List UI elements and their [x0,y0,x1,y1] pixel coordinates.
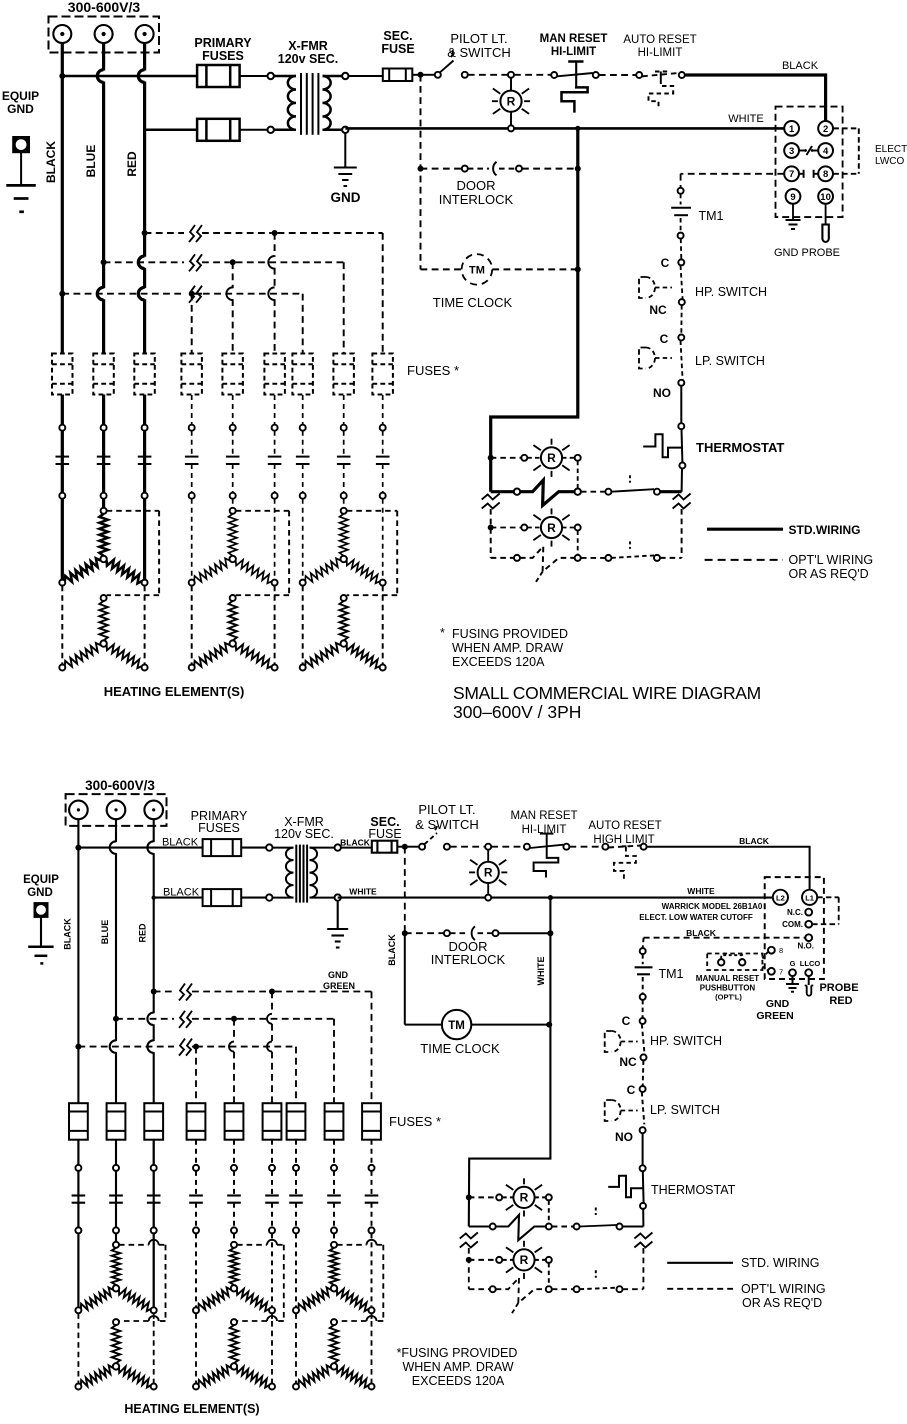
heating element group 2 (wye) [189,499,289,671]
svg-text:*FUSING PROVIDED: *FUSING PROVIDED [397,1346,518,1360]
label SEC. FUSE [381,29,414,56]
node C LP (bottom) [640,1086,646,1092]
wire man reset to auto reset [599,74,636,76]
node row1 to col6 (bottom) [269,989,275,995]
svg-text:ELECT. LOW WATER CUTOFF: ELECT. LOW WATER CUTOFF [639,913,753,922]
label RED vertical (bottom) [138,923,148,943]
node C HP (bottom) [640,1018,646,1024]
heater fuse F8 (bottom) [325,1103,344,1140]
wire RED phase column [138,43,144,583]
label BLACK vertical (bottom) [63,918,73,950]
svg-text:EXCEEDS 120A: EXCEEDS 120A [412,1374,505,1388]
LWCO terminal 7 [784,166,799,181]
svg-text:4: 4 [823,146,829,157]
svg-text:GREEN: GREEN [323,981,355,991]
label WHITE (transformer side) [349,887,377,897]
LWCO terminal 8 [818,166,833,181]
wire col4 drop (bottom) [195,1047,197,1104]
svg-text:TIME CLOCK: TIME CLOCK [433,295,513,310]
label DOOR INTERLOCK [439,178,514,207]
contactor contact column 4 [185,395,199,499]
svg-text:NO: NO [615,1130,633,1144]
break symbol left column (bottom) [460,1233,478,1248]
svg-text:BLACK: BLACK [63,918,73,950]
node thermostat bottom [679,463,685,469]
ground below terminal 9 [786,220,801,229]
svg-text:SEC.: SEC. [383,29,412,43]
svg-text:BLACK: BLACK [340,838,371,848]
ELECT LWCO dashed enclosure [776,107,843,218]
wire pilot light to man reset [514,74,551,76]
svg-text:STD. WIRING: STD. WIRING [741,1256,819,1270]
svg-text:THERMOSTAT: THERMOSTAT [696,440,784,455]
wire sec fuse to node (bottom) [397,844,408,850]
label SEC. FUSE (bottom) [368,815,401,841]
wire G to ground [792,976,794,983]
wire dashed BLACK drop [404,847,406,934]
svg-text:C: C [627,1083,636,1097]
svg-text:7: 7 [789,169,794,180]
node branch row3 at BLACK (bottom) [75,1044,81,1050]
label EQUIP GND (bottom) [23,874,59,899]
primary fuse F2 (bottom) [203,889,242,906]
label BLUE (vertical) [84,145,98,178]
legend STD. WIRING (bottom) [667,1256,819,1270]
wire RED to primary fuse 2 (bottom) [152,895,203,899]
heating element group 2 (bottom) [193,1233,284,1389]
node door interlock right (bottom) [547,930,553,936]
label LP. SWITCH [695,354,765,368]
svg-text:WARRICK MODEL 26B1A0: WARRICK MODEL 26B1A0 [662,902,763,911]
svg-text:2: 2 [823,124,828,135]
wire col5 drop [226,262,232,353]
LWCO terminal 1 [784,121,799,136]
svg-text:EQUIP: EQUIP [2,89,39,103]
svg-text:GND PROBE: GND PROBE [774,247,840,259]
heater fuse F4 [181,354,202,395]
label C (HP) [661,256,670,270]
label FUSES * (bottom) [389,1114,441,1129]
svg-text:TM1: TM1 [699,209,724,223]
break symbol row1 (bottom) [179,984,192,1001]
wire RED phase column (bottom) [147,819,153,1310]
svg-text:COM.: COM. [782,920,803,929]
label MANUAL RESET PUSHBUTTON (OPT'L) [696,974,760,1002]
svg-text:WHITE: WHITE [728,113,763,125]
thermostat symbol (bottom) [608,1176,643,1198]
svg-text:R: R [547,521,556,535]
time clock TM contact [421,254,578,285]
contactor contact column 9 [376,395,390,499]
wire thermostat to contactor row [681,469,683,492]
terminal LLCO [800,959,821,976]
transformer T2 primary terminals [266,844,272,900]
svg-text:R: R [507,95,516,109]
wire fuse1 to transformer (bottom) [241,847,266,849]
switch AUTO RESET HIGH LIMIT (bottom) [602,844,646,881]
wire LLCO to probe [808,976,810,985]
legend OPT'L WIRING [705,553,873,581]
node thermostat bottom (bottom) [640,1203,646,1209]
terminal N.O. [798,934,814,950]
svg-text:FUSE: FUSE [381,42,414,56]
svg-text:INTERLOCK: INTERLOCK [431,952,506,967]
svg-text:ELECT: ELECT [875,144,907,155]
label MAN RESET HI-LIMIT (bottom) [510,810,577,836]
wire warrick BLACK row [644,937,806,939]
svg-text:GND: GND [27,887,53,899]
node branch row3 at BLACK [59,291,65,297]
wire transformer to sec fuse (bottom) [341,847,372,849]
label LP. SWITCH (bottom) [650,1103,720,1117]
svg-text:L2: L2 [776,894,785,903]
svg-text:WHITE: WHITE [349,887,377,897]
node TM1 bottom (bottom) [640,994,646,1000]
switch pilot light switch (bottom) [419,823,450,850]
heater fuse F2 [93,354,114,395]
svg-text:& SWITCH: & SWITCH [447,45,511,60]
heater fuse F5 [222,354,243,395]
wire main contact row (bottom) [469,1208,644,1241]
wire phase A to primary fuse 1 (bottom) [78,847,202,849]
node branch row3 to fuse col4 [189,291,195,297]
svg-text:PILOT LT.: PILOT LT. [450,31,507,46]
label FUSES * [407,363,459,378]
svg-text:TM: TM [469,265,485,277]
label NO (bottom) [615,1130,633,1144]
heater fuse F1 [52,354,73,395]
svg-text:RED: RED [125,151,139,177]
svg-text:SMALL COMMERCIAL WIRE DIAGRAM: SMALL COMMERCIAL WIRE DIAGRAM [453,683,761,703]
svg-text:G: G [790,959,796,968]
break symbol row2 (bottom) [179,1011,192,1028]
wire BLACK phase column (bottom) [75,819,81,1310]
wire fuse2 to transformer (bottom) [241,897,266,899]
svg-text:BLUE: BLUE [100,920,110,945]
wire node to pilot switch [421,74,435,76]
label BLACK (L1 wire) [739,836,770,846]
contactor contact column 1 (bottom) [72,1140,86,1234]
svg-text:7: 7 [779,967,783,976]
svg-text:DOOR: DOOR [457,178,496,193]
ground below transformer (bottom) [327,929,348,948]
label PRIMARY FUSES (bottom) [191,809,248,835]
wire fuse 2 to transformer [240,129,268,131]
svg-text:PUSHBUTTON: PUSHBUTTON [700,984,756,993]
wire transformer secondary to chassis ground [344,133,346,167]
label BLACK (vertical) [44,141,58,183]
wire dashed drop from sec fuse node [420,75,422,270]
svg-text:X-FMR: X-FMR [288,39,328,53]
svg-text:AUTO RESET: AUTO RESET [623,34,696,46]
break symbol right column (bottom) [634,1233,652,1248]
node branch row1 at RED [142,230,148,236]
svg-text:EQUIP: EQUIP [23,874,59,886]
wire WHITE rail [345,127,784,130]
svg-text:120v SEC.: 120v SEC. [274,827,334,841]
svg-text:LP. SWITCH: LP. SWITCH [695,354,765,368]
svg-text:STD.WIRING: STD.WIRING [789,523,861,537]
svg-text:PROBE: PROBE [819,982,858,994]
svg-text:N.C.: N.C. [787,908,803,917]
node door interlock left [418,166,424,172]
svg-text:FUSES *: FUSES * [389,1114,441,1129]
node branch row2 at BLUE [101,259,107,265]
label HP. SWITCH (bottom) [650,1034,722,1048]
contactor contact column 6 (bottom) [265,1140,279,1234]
footnote FUSING PROVIDED [440,626,568,669]
heater fuse F8 [333,354,354,395]
switch MAN RESET HI-LIMIT (bottom) [524,834,570,878]
contactor contact column 6 [268,395,282,499]
wire NO to thermostat (bottom) [642,1133,644,1165]
svg-text:FUSE: FUSE [368,827,401,841]
label BLACK wire 2 [163,887,200,899]
svg-text:HI-LIMIT: HI-LIMIT [638,47,683,59]
svg-text:MANUAL RESET: MANUAL RESET [696,974,760,983]
svg-text:MAN RESET: MAN RESET [510,810,577,822]
wire NC to C LP [680,305,682,334]
node time clock right (bottom) [546,1022,552,1028]
label WHITE vertical (bottom) [536,957,546,986]
node white rail feed [575,126,580,131]
heater fuse F6 [264,354,285,395]
contact TM1 [671,194,691,233]
label BLACK vertical (drop) [387,934,397,966]
terminal block 300-600V/3 (bottom diagram) [66,794,167,826]
wire TM1 to C [642,1000,644,1018]
label AUTO RESET HI-LIMIT [623,34,696,59]
node row2 to col5 (bottom) [231,1016,237,1022]
svg-text:*: * [440,626,445,640]
contact TM1 (bottom) [635,954,653,994]
svg-text:HIGH LIMIT: HIGH LIMIT [593,834,654,846]
wire LWCO 7 to TM1 branch [681,174,785,188]
terminal N.C. [787,908,812,917]
contactor contact column 5 [226,395,240,499]
ground below G [786,984,799,992]
svg-text:OPT'L WIRING: OPT'L WIRING [741,1282,826,1296]
heater fuse F1 (bottom) [69,1103,88,1140]
svg-text:300-600V/3: 300-600V/3 [68,0,141,15]
contactor contact column 8 [337,395,351,499]
svg-text:FUSES *: FUSES * [407,363,459,378]
label BLACK small (sec fuse) [340,838,371,848]
node thermostat top (bottom) [640,1165,646,1171]
secondary fuse (bottom) [372,841,398,853]
svg-text:WHEN AMP. DRAW: WHEN AMP. DRAW [402,1360,513,1374]
wire secondary to ground (bottom) [337,901,339,929]
svg-text:WHEN AMP. DRAW: WHEN AMP. DRAW [452,641,563,655]
wire BLUE phase column (bottom) [110,819,116,1242]
LWCO terminal 9 [786,189,801,204]
wire col4 drop [191,294,193,353]
wire optional bottom row (bottom) [469,1248,644,1313]
wire WHITE rail (bottom) [338,897,773,899]
wire man reset to auto reset (bottom) [569,846,602,848]
terminal 7 [768,967,783,976]
break symbol row2 [189,254,202,271]
label HP. SWITCH [695,285,767,299]
node branch row1 at RED (bottom) [151,989,157,995]
label X-FMR 120v SEC. (bottom) [274,815,334,841]
wire BLACK phase column [61,43,64,583]
node pilot bottom on rail (bottom) [485,895,491,901]
label TIME CLOCK (bottom) [420,1041,500,1056]
svg-text:FUSING PROVIDED: FUSING PROVIDED [452,627,568,641]
pilot light R1 (red) [492,78,530,125]
label 300-600V/3 (bottom) [85,778,155,793]
svg-text:TIME CLOCK: TIME CLOCK [420,1041,500,1056]
ground GND below transformer [334,168,357,187]
footnote FUSING (bottom) [397,1346,518,1388]
label WARRICK MODEL 26B1A0 [662,902,763,911]
node TM1 top (bottom) [640,948,646,954]
heater fuse F3 (bottom) [144,1103,163,1140]
svg-text:HEATING ELEMENT(S): HEATING ELEMENT(S) [124,1402,259,1416]
label THERMOSTAT [696,440,784,455]
wire BLACK to LWCO terminal 2 [685,75,826,121]
label THERMOSTAT (bottom) [651,1183,736,1197]
wire TM1 to HP switch C [680,239,683,260]
wire node to pilot switch (bottom) [405,846,419,848]
svg-text:TM: TM [448,1020,465,1032]
break symbol row1 [189,225,202,242]
label PILOT LT. & SWITCH (bottom) [415,802,479,832]
legend OPT'L WIRING (bottom) [667,1282,825,1310]
heater fuse F4 (bottom) [187,1103,206,1140]
svg-text:R: R [520,1191,529,1205]
heating element group 3 (wye) [300,499,398,671]
wire main contact row [491,475,682,505]
node row3 to col4 (bottom) [193,1044,199,1050]
label MAN RESET HI-LIMIT [540,33,608,58]
terminal COM. [782,920,812,929]
contactor contact column 9 (bottom) [365,1140,379,1234]
wire branch row 2 (bottom) [116,1019,334,1103]
label TM1 [699,209,724,223]
svg-text:N.O.: N.O. [798,942,814,951]
contactor contact column 7 (bottom) [289,1140,303,1234]
wire transformer to sec fuse [349,75,383,77]
svg-text:R: R [484,866,493,880]
break symbol row3 [189,286,202,303]
node pilot light top [508,72,514,78]
node branch row2 at BLUE (bottom) [113,1016,119,1022]
svg-text:BLUE: BLUE [84,145,98,178]
label PILOT LT. & SWITCH [447,31,511,60]
node NO LP (bottom) [640,1127,646,1133]
label AUTO RESET HIGH LIMIT (bottom) [588,820,661,846]
heater fuse F9 (bottom) [362,1103,381,1140]
node NO LP switch [678,380,684,386]
wire LWCO right bracket [833,128,858,173]
svg-text:PILOT LT.: PILOT LT. [418,802,475,817]
label HEATING ELEMENT(S) [104,684,245,699]
label BLACK (warrick row) [686,928,717,938]
node pilot light bottom on white rail [508,125,514,131]
svg-text:10: 10 [820,192,831,203]
node NC HP (bottom) [641,1054,647,1060]
svg-text:R: R [520,1253,529,1267]
node door interlock right [575,166,581,172]
terminal 8 [768,946,783,955]
transformer T2 secondary terminals [335,844,341,900]
svg-text:WHITE: WHITE [687,886,715,896]
wire phase A to primary fuse 1 [59,73,197,79]
node thermostat top [678,423,684,429]
probe electrode (bottom) [805,986,814,996]
node white rail feed (bottom) [548,895,553,900]
label GND GREEN (warrick) [756,998,793,1022]
terminal L2 [773,890,788,905]
svg-text:HP. SWITCH: HP. SWITCH [650,1034,722,1048]
switch LP. SWITCH [639,341,683,380]
heater fuse F5 (bottom) [225,1103,244,1140]
primary fuse F1 [197,65,240,87]
wire RED to primary fuse 2 [145,129,198,132]
label C (LP) [660,332,669,346]
wire branch row 3 [62,294,302,353]
label ELECT. LOW WATER CUTOFF [639,913,753,922]
svg-text:HI-LIMIT: HI-LIMIT [522,824,567,836]
wire optional bottom row [491,509,682,582]
svg-text:8: 8 [823,169,828,180]
svg-text:C: C [622,1014,631,1028]
transformer T1 X-FMR 120v SEC [274,73,343,135]
svg-text:C: C [660,332,669,346]
svg-text:NC: NC [619,1055,637,1069]
label TIME CLOCK [433,295,513,310]
heater fuse F7 (bottom) [287,1103,306,1140]
svg-text:L1: L1 [805,894,814,903]
manual reset pushbutton [707,952,768,971]
node branch row2 to fuse col5 [230,259,236,265]
Warrick dashed enclosure [765,877,824,979]
switch pilot light switch [435,50,468,78]
wire branch row 2 [104,262,344,353]
label C LP (bottom) [627,1083,636,1097]
node C LP switch [678,335,684,341]
switch DOOR INTERLOCK [421,162,578,176]
svg-text:9: 9 [790,192,795,203]
label BLACK wire 1 [162,837,199,849]
LWCO terminal 2 [818,121,833,136]
svg-text:HEATING ELEMENT(S): HEATING ELEMENT(S) [104,684,245,699]
thermostat symbol [643,434,681,457]
contactor contact column 1 [56,395,70,499]
label NC [649,303,667,317]
wire terminal 10 to probe [825,204,827,224]
svg-text:HI-LIMIT: HI-LIMIT [551,46,596,58]
svg-text:FUSES: FUSES [202,49,244,63]
svg-text:3: 3 [789,146,794,157]
label HEATING ELEMENT(S) (bottom) [124,1402,259,1416]
svg-text:BLACK: BLACK [162,837,199,849]
svg-text:GREEN: GREEN [756,1010,793,1022]
svg-text:PRIMARY: PRIMARY [194,36,252,50]
terminal L1 [802,890,817,905]
equipment ground symbol (bottom) [28,903,53,963]
label X-FMR 120v SEC. [278,39,338,66]
contactor contact column 2 (bottom) [109,1140,123,1234]
switch MAN RESET HI-LIMIT [551,62,599,113]
label WHITE [728,113,763,125]
svg-text:OR AS REQ'D: OR AS REQ'D [742,1296,822,1310]
break symbol left column [482,494,500,509]
label C HP (bottom) [622,1014,631,1028]
heater fuse F2 (bottom) [107,1103,126,1140]
